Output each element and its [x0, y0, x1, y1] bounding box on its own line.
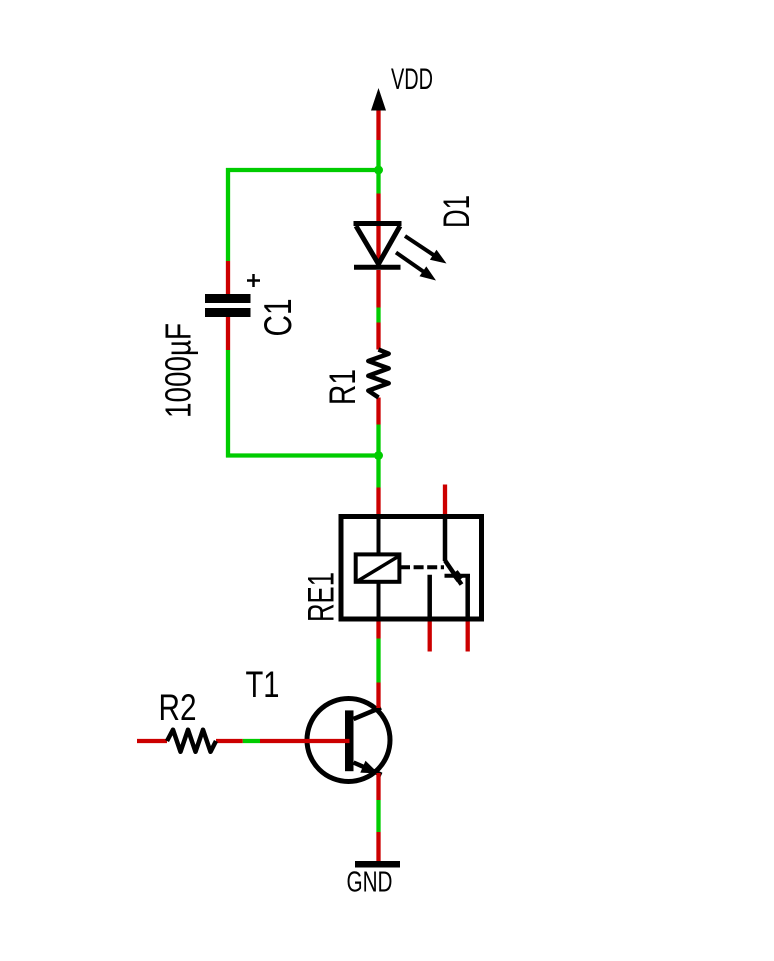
svg-text:R1: R1	[322, 369, 363, 405]
svg-text:RE1: RE1	[301, 572, 342, 622]
svg-text:1000µF: 1000µF	[158, 323, 199, 418]
svg-text:C1: C1	[257, 299, 300, 337]
svg-text:VDD: VDD	[391, 63, 433, 96]
svg-text:GND: GND	[347, 867, 393, 899]
svg-text:T1: T1	[246, 664, 280, 705]
svg-text:D1: D1	[436, 195, 477, 228]
svg-text:R2: R2	[159, 687, 197, 728]
